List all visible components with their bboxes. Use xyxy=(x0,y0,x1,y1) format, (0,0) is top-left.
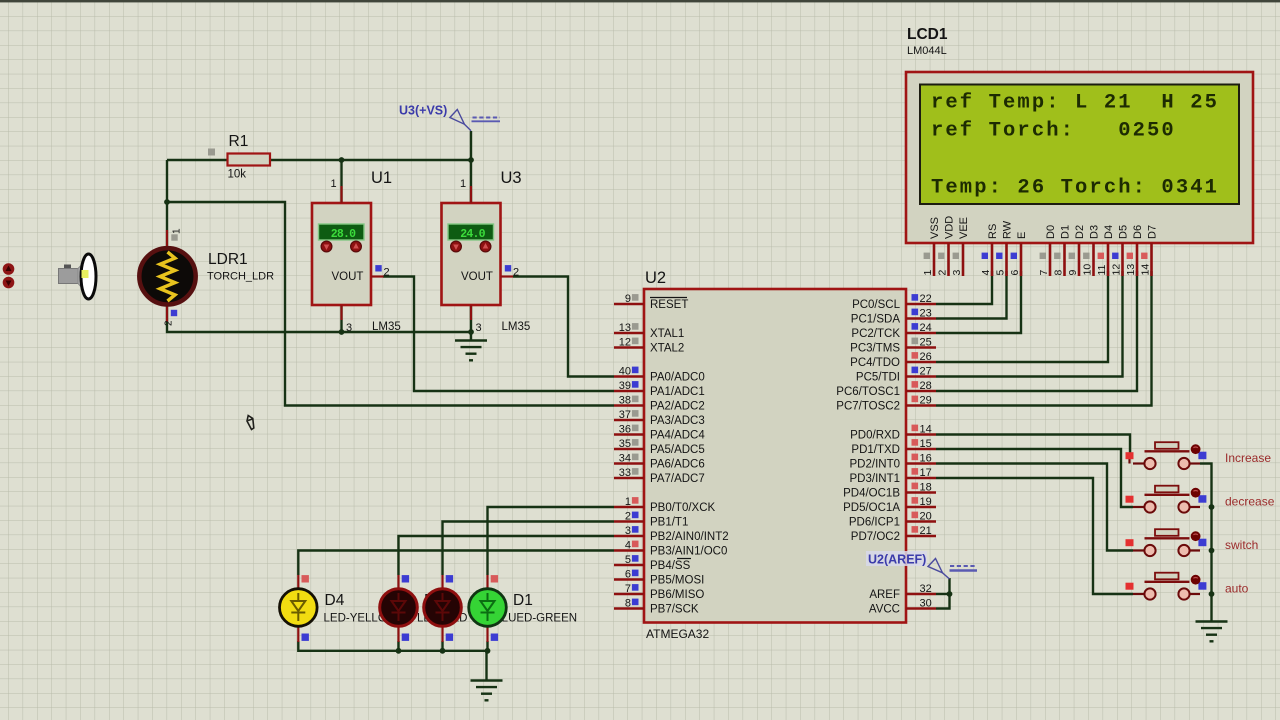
LED D3 LED-RED (dark) xyxy=(397,575,399,590)
junction node U1 pin1 on VCC rail xyxy=(339,157,345,163)
top border line xyxy=(0,0,1280,2)
LCD1 pin 13 D6 xyxy=(1136,243,1139,276)
LCD1 screen xyxy=(920,85,1239,205)
svg-text:20: 20 xyxy=(920,510,932,522)
svg-text:ref Torch: 0250: ref Torch: 0250 xyxy=(931,120,1176,143)
svg-text:E: E xyxy=(1016,232,1028,239)
wire U3 VOUT to U2 PA0 xyxy=(513,277,614,377)
wire R1 left down to LDR1 top xyxy=(166,160,168,247)
svg-text:3: 3 xyxy=(476,322,482,334)
down adjuster dot (left edge) xyxy=(3,277,15,289)
U2 pin 30 AVCC (right) xyxy=(906,607,936,610)
svg-text:PA3/ADC3: PA3/ADC3 xyxy=(650,415,705,427)
wire to U1 pin1 xyxy=(340,160,342,203)
U2 pin 38 PA2/ADC2 (left) xyxy=(614,404,644,407)
wire LED cathode rail xyxy=(298,641,487,651)
svg-text:PD4/OC1B: PD4/OC1B xyxy=(843,488,900,500)
svg-text:24.0: 24.0 xyxy=(460,228,485,241)
svg-text:D3: D3 xyxy=(1089,225,1101,239)
svg-text:PD1/TXD: PD1/TXD xyxy=(851,444,900,456)
torch light source icon xyxy=(59,254,97,299)
svg-text:13: 13 xyxy=(619,322,631,334)
svg-text:D4: D4 xyxy=(325,592,345,609)
svg-text:PB0/T0/XCK: PB0/T0/XCK xyxy=(650,502,716,514)
svg-text:10k: 10k xyxy=(228,169,247,181)
svg-text:VEE: VEE xyxy=(958,217,970,239)
svg-text:LDR1: LDR1 xyxy=(208,251,248,268)
junction D2 on cathode rail xyxy=(440,648,446,654)
LED D2 LED-RED (dark) xyxy=(441,575,443,590)
wire U3 pin3 down to ground xyxy=(470,305,472,340)
svg-text:15: 15 xyxy=(920,438,932,450)
svg-text:D1: D1 xyxy=(1060,225,1072,239)
svg-text:6: 6 xyxy=(625,568,631,580)
wire D3 cathode xyxy=(397,641,399,651)
up adjuster dot (left edge) xyxy=(3,263,15,275)
U2 pin 3 PB2/AIN0/INT2 (left) xyxy=(614,535,644,538)
U2 pin 7 PB6/MISO (left) xyxy=(614,593,644,596)
svg-text:D0: D0 xyxy=(1045,225,1057,239)
svg-text:19: 19 xyxy=(920,496,932,508)
svg-text:14: 14 xyxy=(1140,264,1152,276)
svg-text:38: 38 xyxy=(619,394,631,406)
svg-text:PB6/MISO: PB6/MISO xyxy=(650,589,704,601)
junction decrease on bus xyxy=(1209,504,1215,510)
U2 pin 32 AREF (right) xyxy=(906,593,936,596)
svg-text:RW: RW xyxy=(1002,220,1014,239)
svg-text:PA6/ADC6: PA6/ADC6 xyxy=(650,459,705,471)
svg-text:1: 1 xyxy=(625,496,631,508)
svg-text:3: 3 xyxy=(951,270,963,276)
U2 pin 14 PD0/RXD (right) xyxy=(906,433,936,436)
svg-text:PB4/SS: PB4/SS xyxy=(650,560,691,572)
wire U2 PB0 pin1 to D1 xyxy=(488,507,615,575)
svg-text:PC5/TDI: PC5/TDI xyxy=(856,372,900,384)
power flag U3(+VS) triangle xyxy=(450,110,471,131)
U3 pin 2 (VOUT) stub xyxy=(501,275,514,277)
wire U2(AREF) flag to AVCC xyxy=(936,578,950,609)
U2 pin 1 PB0/T0/XCK (left) xyxy=(614,506,644,509)
LCD1 pin 9 D2 xyxy=(1078,243,1081,276)
U2 pin 19 PD5/OC1A (right) xyxy=(906,506,936,509)
svg-text:35: 35 xyxy=(619,438,631,450)
svg-text:PB3/AIN1/OC0: PB3/AIN1/OC0 xyxy=(650,546,727,558)
wire VCC rail R1 row xyxy=(167,159,471,161)
LCD1 pin 6 E xyxy=(1020,243,1023,276)
U1 display xyxy=(319,224,365,240)
svg-text:U1: U1 xyxy=(371,169,392,187)
junction node U1 pin3 on ground rail xyxy=(339,329,345,335)
wire U2 PB2 pin3 to D3 xyxy=(399,536,615,575)
U3 down button xyxy=(451,241,462,252)
svg-text:37: 37 xyxy=(619,409,631,421)
connector PD0 square to Increase stub xyxy=(1128,459,1130,464)
wire cathode rail to ground xyxy=(485,651,487,680)
LCD1 pin 8 D1 xyxy=(1063,243,1066,276)
U2 pin 25 PC3/TMS (right) xyxy=(906,346,936,349)
svg-text:decrease: decrease xyxy=(1225,495,1275,509)
svg-text:RS: RS xyxy=(987,224,999,239)
svg-text:AREF: AREF xyxy=(869,589,900,601)
power flag U3(+VS) dashed mark xyxy=(473,117,501,119)
svg-text:1: 1 xyxy=(331,178,337,190)
U2 pin 15 PD1/TXD (right) xyxy=(906,448,936,451)
svg-text:13: 13 xyxy=(1125,264,1137,276)
LDR1 pin 2 state square xyxy=(171,310,177,316)
R1 marker square xyxy=(208,149,215,156)
svg-text:LM044L: LM044L xyxy=(907,45,947,57)
U1 pin 2 (VOUT) stub xyxy=(371,275,384,277)
U2 pin 12 XTAL2 (left) xyxy=(614,346,644,349)
svg-text:D7: D7 xyxy=(1147,225,1159,239)
U2 pin 40 PA0/ADC0 (left) xyxy=(614,375,644,378)
U2 pin 27 PC5/TDI (right) xyxy=(906,375,936,378)
svg-text:LCD1: LCD1 xyxy=(907,26,948,43)
svg-text:23: 23 xyxy=(920,307,932,319)
svg-text:PD0/RXD: PD0/RXD xyxy=(850,430,900,442)
LED D4 LED-YELLOW xyxy=(297,575,299,590)
wire U2 PC7 pin29 to LCD D7 xyxy=(936,271,1152,406)
mouse cursor (pencil) xyxy=(247,416,254,430)
svg-text:PC2/TCK: PC2/TCK xyxy=(851,328,900,340)
svg-text:U2: U2 xyxy=(645,269,666,287)
svg-text:39: 39 xyxy=(619,380,631,392)
LCD1 pin 10 D3 xyxy=(1092,243,1095,276)
U2 pin 34 PA6/ADC6 (left) xyxy=(614,462,644,465)
svg-text:2: 2 xyxy=(937,270,949,276)
LDR1 pin 1 state square xyxy=(171,234,177,240)
svg-text:9: 9 xyxy=(1067,270,1079,276)
U2 pin 28 PC6/TOSC1 (right) xyxy=(906,390,936,393)
power flag U2(AREF) triangle xyxy=(928,559,950,580)
U3 display xyxy=(448,224,494,240)
svg-text:26: 26 xyxy=(920,351,932,363)
wire LDR tap to U2 PA2 xyxy=(167,202,614,406)
junction node U3 pin3 on ground rail xyxy=(468,329,474,335)
svg-text:D1: D1 xyxy=(513,592,533,609)
junction auto on bus xyxy=(1209,591,1215,597)
svg-text:4: 4 xyxy=(980,270,992,276)
LCD1 pin 1 VSS xyxy=(933,243,936,276)
U2 pin 17 PD3/INT1 (right) xyxy=(906,477,936,480)
svg-text:PC0/SCL: PC0/SCL xyxy=(852,299,901,311)
svg-text:auto: auto xyxy=(1225,582,1249,596)
svg-text:Temp: 26 Torch: 0341: Temp: 26 Torch: 0341 xyxy=(931,177,1219,200)
LCD1 pin 2 VDD xyxy=(947,243,950,276)
svg-text:4: 4 xyxy=(625,539,631,551)
U2 pin 5 PB4/SS (left) xyxy=(614,564,644,567)
temperature sensor U1 LM35 xyxy=(312,203,371,305)
svg-text:21: 21 xyxy=(920,525,932,537)
junction AREF node xyxy=(947,591,953,597)
wire U2 PC4 pin26 to LCD D4 xyxy=(936,271,1108,362)
LCD1 pin 4 RS xyxy=(991,243,994,276)
junction node U3 pin1 on VCC rail xyxy=(468,157,474,163)
wire LCD RS to U2 PC0 pin22 xyxy=(936,271,992,304)
U2 pin 4 PB3/AIN1/OC0 (left) xyxy=(614,549,644,552)
LCD1 pin 14 D7 xyxy=(1150,243,1153,276)
U2 pin 18 PD4/OC1B (right) xyxy=(906,491,936,494)
ground LM35 sensors xyxy=(455,341,487,361)
svg-text:3: 3 xyxy=(346,322,352,334)
wire U2 PD2 pin16 to switch button xyxy=(936,464,1133,551)
U2 pin 16 PD2/INT0 (right) xyxy=(906,462,936,465)
svg-text:18: 18 xyxy=(920,481,932,493)
svg-text:17: 17 xyxy=(920,467,932,479)
svg-text:8: 8 xyxy=(1053,270,1065,276)
LCD1 pin 5 RW xyxy=(1005,243,1008,276)
temperature sensor U3 LM35 xyxy=(442,203,501,305)
U2 pin 2 PB1/T1 (left) xyxy=(614,520,644,523)
svg-text:PA1/ADC1: PA1/ADC1 xyxy=(650,386,705,398)
svg-text:LM35: LM35 xyxy=(502,321,531,333)
svg-text:LM35: LM35 xyxy=(372,321,401,333)
wire U2 PD1 pin15 to decrease button xyxy=(936,449,1133,507)
svg-text:ATMEGA32: ATMEGA32 xyxy=(646,627,709,641)
svg-text:3: 3 xyxy=(625,525,631,537)
wire LDR1 bottom to LM35 pin3 rail xyxy=(167,305,471,332)
U2 pin 8 PB7/SCK (left) xyxy=(614,607,644,610)
svg-text:33: 33 xyxy=(619,467,631,479)
svg-text:30: 30 xyxy=(920,597,932,609)
junction node LDR divider tap xyxy=(164,199,170,205)
U1 pin 3 stub xyxy=(340,305,342,320)
svg-text:22: 22 xyxy=(920,293,932,305)
svg-text:11: 11 xyxy=(1096,264,1108,275)
junction D3 on cathode rail xyxy=(396,648,402,654)
ground buttons xyxy=(1196,622,1228,642)
svg-text:D4: D4 xyxy=(1103,225,1115,239)
LCD1 pin 12 D5 xyxy=(1121,243,1124,276)
LED D1 BLUED-GREEN xyxy=(486,575,488,590)
wire U2 PC6 pin28 to LCD D6 xyxy=(936,271,1137,391)
svg-text:5: 5 xyxy=(625,554,631,566)
svg-text:8: 8 xyxy=(625,597,631,609)
svg-text:VOUT: VOUT xyxy=(461,271,493,283)
wire U1 pin3 down xyxy=(340,305,342,332)
svg-text:Increase: Increase xyxy=(1225,451,1271,465)
svg-text:PC3/TMS: PC3/TMS xyxy=(850,343,900,355)
U2 pin 24 PC2/TCK (right) xyxy=(906,332,936,335)
U2 pin 6 PB5/MOSI (left) xyxy=(614,578,644,581)
svg-text:VSS: VSS xyxy=(929,217,941,239)
svg-text:PB2/AIN0/INT2: PB2/AIN0/INT2 xyxy=(650,531,729,543)
svg-text:AVCC: AVCC xyxy=(869,604,900,616)
svg-text:27: 27 xyxy=(920,365,932,377)
U1 down button xyxy=(321,241,332,252)
U3 pin 3 stub xyxy=(470,305,472,320)
U3 pin 2 state square xyxy=(505,265,511,271)
ground LEDs xyxy=(471,681,503,701)
svg-text:1: 1 xyxy=(172,228,183,234)
svg-text:16: 16 xyxy=(920,452,932,464)
svg-text:TORCH_LDR: TORCH_LDR xyxy=(207,271,274,283)
svg-text:PD3/INT1: PD3/INT1 xyxy=(850,473,901,485)
svg-text:2: 2 xyxy=(625,510,631,522)
LCD1 pin 3 VEE xyxy=(962,243,965,276)
svg-text:VOUT: VOUT xyxy=(332,271,364,283)
push button auto xyxy=(1126,573,1207,600)
LDR1 photoresistor body xyxy=(139,248,195,304)
wire LCD E to U2 PC2 pin24 xyxy=(936,271,1021,333)
wire button bus to ground xyxy=(1200,464,1212,622)
svg-text:PC7/TOSC2: PC7/TOSC2 xyxy=(836,401,900,413)
U2 pin 21 PD7/OC2 (right) xyxy=(906,535,936,538)
svg-text:36: 36 xyxy=(619,423,631,435)
svg-text:R1: R1 xyxy=(229,133,249,150)
wire D2 cathode xyxy=(441,641,443,651)
svg-text:U3(+VS): U3(+VS) xyxy=(399,104,447,118)
svg-text:PB5/MOSI: PB5/MOSI xyxy=(650,575,704,587)
svg-text:40: 40 xyxy=(619,365,631,377)
wire D1 cathode xyxy=(486,641,488,651)
svg-text:28.0: 28.0 xyxy=(331,228,356,241)
svg-text:12: 12 xyxy=(619,336,631,348)
svg-text:PD2/INT0: PD2/INT0 xyxy=(850,459,901,471)
svg-text:PA7/ADC7: PA7/ADC7 xyxy=(650,473,705,485)
svg-text:PC1/SDA: PC1/SDA xyxy=(851,314,901,326)
svg-text:XTAL2: XTAL2 xyxy=(650,343,684,355)
svg-text:D5: D5 xyxy=(1118,225,1130,239)
svg-text:24: 24 xyxy=(920,322,932,334)
svg-text:7: 7 xyxy=(625,583,631,595)
U2 pin 13 XTAL1 (left) xyxy=(614,332,644,335)
svg-text:7: 7 xyxy=(1038,270,1050,276)
svg-text:PA2/ADC2: PA2/ADC2 xyxy=(650,401,705,413)
U2 pin 22 PC0/SCL (right) xyxy=(906,303,936,306)
svg-text:VDD: VDD xyxy=(944,216,956,239)
svg-text:2: 2 xyxy=(384,267,390,279)
svg-text:29: 29 xyxy=(920,394,932,406)
svg-text:D6: D6 xyxy=(1132,225,1144,239)
svg-text:14: 14 xyxy=(920,423,932,435)
wire U2 PB3 pin4 to D4 xyxy=(298,551,614,576)
junction D1 on cathode rail xyxy=(485,648,491,654)
power flag U2(AREF) label xyxy=(866,551,927,566)
U2 pin 26 PC4/TDO (right) xyxy=(906,361,936,364)
push button switch xyxy=(1126,529,1207,556)
svg-text:PA5/ADC5: PA5/ADC5 xyxy=(650,444,705,456)
svg-text:U2(AREF): U2(AREF) xyxy=(868,553,926,567)
U3 up button xyxy=(480,241,491,252)
svg-text:6: 6 xyxy=(1009,270,1021,276)
svg-text:PA4/ADC4: PA4/ADC4 xyxy=(650,430,705,442)
svg-text:PC6/TOSC1: PC6/TOSC1 xyxy=(836,386,900,398)
svg-text:PB1/T1: PB1/T1 xyxy=(650,517,688,529)
svg-text:RESET: RESET xyxy=(650,299,688,311)
wire LCD RW to U2 PC1 pin23 xyxy=(936,271,1007,319)
wire U2 PD3 pin17 to auto button xyxy=(936,478,1133,594)
wire AREF to flag node xyxy=(936,593,950,595)
svg-text:5: 5 xyxy=(995,270,1007,276)
svg-text:1: 1 xyxy=(460,178,466,190)
svg-text:1: 1 xyxy=(922,270,934,276)
svg-text:9: 9 xyxy=(625,293,631,305)
svg-text:PB7/SCK: PB7/SCK xyxy=(650,604,699,616)
svg-text:D2: D2 xyxy=(1074,225,1086,239)
LCD1 LM044L body xyxy=(906,72,1253,243)
svg-text:XTAL1: XTAL1 xyxy=(650,328,684,340)
svg-text:2: 2 xyxy=(164,320,175,326)
U2 pin 23 PC1/SDA (right) xyxy=(906,317,936,320)
svg-text:10: 10 xyxy=(1082,264,1094,276)
U2 pin 37 PA3/ADC3 (left) xyxy=(614,419,644,422)
U2 pin 29 PC7/TOSC2 (right) xyxy=(906,404,936,407)
LCD1 pin 7 D0 xyxy=(1049,243,1052,276)
U1 up button xyxy=(351,241,362,252)
LDR1 zigzag element xyxy=(160,252,175,301)
wire U3(+VS) flag down to U3 pin1 xyxy=(470,131,472,203)
resistor R1 xyxy=(228,154,271,166)
U2 pin 35 PA5/ADC5 (left) xyxy=(614,448,644,451)
U1 pin 2 state square xyxy=(375,265,381,271)
svg-text:32: 32 xyxy=(920,583,932,595)
microcontroller U2 ATMEGA32 body xyxy=(644,289,906,623)
wire U2 PC5 pin27 to LCD D5 xyxy=(936,271,1123,377)
svg-text:PD7/OC2: PD7/OC2 xyxy=(851,531,900,543)
wire U2 PD0 pin14 to Increase button xyxy=(936,435,1130,456)
power flag U2(AREF) dashed mark xyxy=(950,565,977,567)
svg-text:25: 25 xyxy=(920,336,932,348)
push button Increase xyxy=(1126,442,1207,469)
svg-text:PD6/ICP1: PD6/ICP1 xyxy=(849,517,900,529)
wire U2 PB1 pin2 to D2 xyxy=(443,522,615,576)
U2 pin 33 PA7/ADC7 (left) xyxy=(614,477,644,480)
svg-text:PC4/TDO: PC4/TDO xyxy=(850,357,900,369)
U2 pin 36 PA4/ADC4 (left) xyxy=(614,433,644,436)
U2 pin 39 PA1/ADC1 (left) xyxy=(614,390,644,393)
svg-text:U3: U3 xyxy=(501,169,522,187)
junction switch on bus xyxy=(1209,548,1215,554)
U2 pin 9 RESET (left) xyxy=(614,303,644,306)
wire U1 VOUT to U2 PA1 xyxy=(383,277,614,392)
U3 pin 1 stub xyxy=(470,186,472,203)
svg-text:switch: switch xyxy=(1225,538,1258,552)
push button decrease xyxy=(1126,486,1207,513)
svg-text:PA0/ADC0: PA0/ADC0 xyxy=(650,372,705,384)
LDR1 TORCH_LDR pin stubs xyxy=(166,230,168,249)
U2 pin 20 PD6/ICP1 (right) xyxy=(906,520,936,523)
svg-text:2: 2 xyxy=(513,267,519,279)
svg-text:PD5/OC1A: PD5/OC1A xyxy=(843,502,900,514)
svg-text:12: 12 xyxy=(1111,264,1123,276)
svg-text:ref Temp: L 21 H 25: ref Temp: L 21 H 25 xyxy=(931,92,1219,115)
LCD1 pin 11 D4 xyxy=(1107,243,1110,276)
svg-text:28: 28 xyxy=(920,380,932,392)
U1 pin 1 stub xyxy=(340,186,342,203)
svg-text:34: 34 xyxy=(619,452,631,464)
